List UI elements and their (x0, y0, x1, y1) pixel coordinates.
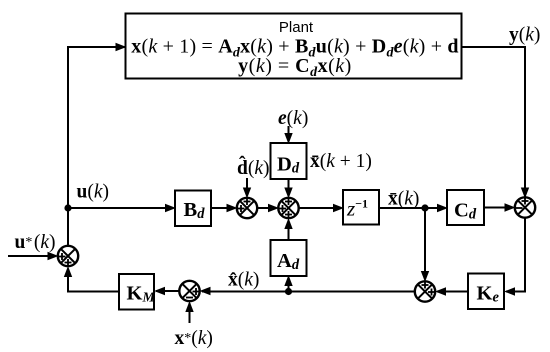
wire: x*(k) up into sum S5 (189, 303, 191, 323)
S4 plus top (422, 282, 429, 289)
arrowheads (48, 43, 530, 312)
wire: C_d to sum S3 (484, 207, 513, 209)
wire: sum S3 down and left into K_e (506, 218, 525, 292)
wire: e(k) arrow into D_d (288, 126, 290, 141)
arrow into sum S4 from right (435, 287, 446, 295)
summing junction S3 (515, 197, 535, 217)
S3 plus top (522, 198, 529, 205)
wire: A_d up into sum S2 (288, 221, 290, 241)
summing junction S5 (179, 281, 199, 301)
plus/minus signs inside summing junctions (59, 198, 529, 298)
wire: z^-1 to C_d (379, 207, 445, 209)
summing junction S2 (278, 198, 298, 218)
summing junction S6 (58, 246, 78, 266)
S6 plus bottom (65, 259, 72, 266)
arrow into sum S6 from left (48, 252, 59, 260)
wire: node after z^-1 down to sum S4 (424, 208, 426, 280)
arrow into sum S3 from left (505, 203, 516, 211)
arrow into sum S3 from top (521, 188, 529, 199)
svg-text:Plant: Plant (279, 19, 314, 36)
block z^-1 (343, 190, 379, 225)
svg-text:x̂(k): x̂(k) (228, 270, 259, 291)
block D_d (271, 143, 307, 179)
wire: B_d to sum S1 (211, 207, 235, 209)
wire: d-hat arrow into sum S1 (246, 178, 248, 196)
svg-text:e(k): e(k) (278, 108, 308, 129)
arrow into C_d (437, 204, 448, 212)
arrow into sum S5 from right (200, 287, 211, 295)
arrow into sum S6 from below (64, 266, 72, 277)
wire: node up into A_d (288, 278, 290, 292)
block K_e (468, 274, 504, 310)
svg-text:x̄(k): x̄(k) (388, 189, 419, 210)
S5 plus right (193, 288, 200, 295)
arrow into sum S2 from below (284, 218, 292, 229)
wire: u(k) from node to B_d (68, 207, 173, 209)
svg-text:x̄(k + 1): x̄(k + 1) (310, 151, 372, 172)
S3 minus left (516, 207, 523, 209)
arrow into B_d (165, 204, 176, 212)
wire: K_e to sum S4 (437, 291, 468, 293)
svg-text:y(k) = Cdx(k): y(k) = Cdx(k) (238, 55, 352, 80)
arrow into K_e (504, 287, 515, 295)
block B_d (175, 191, 211, 227)
S2 plus bottom (285, 211, 292, 218)
S2 plus left (279, 205, 286, 212)
wire: sum S1 to sum S2 (257, 207, 276, 209)
S1 plus top (244, 198, 251, 205)
arrow into plant (116, 43, 127, 51)
arrow into sum S1 from top (243, 188, 251, 199)
arrow into K_M (154, 287, 165, 295)
wire: K_M left and up into sum S6 (68, 269, 119, 292)
wire: sum S5 output into K_M (156, 290, 179, 292)
block K_M (119, 274, 154, 310)
wire: sum S2 to z^-1 (299, 207, 342, 209)
arrow into sum S5 from below (185, 301, 193, 312)
arrow into sum S2 from top (284, 188, 292, 199)
arrow into sum S4 from top (421, 271, 429, 282)
summing junction S1 (237, 198, 257, 218)
svg-text:y(k): y(k) (509, 25, 540, 46)
node dot u(k) (64, 204, 71, 211)
wire: sum S4 output left to sum S5 (202, 291, 415, 293)
summing junction S4 (415, 281, 435, 301)
arrow into sum S2 from left (268, 204, 279, 212)
S6 plus left (59, 253, 66, 260)
block C_d (447, 190, 484, 225)
block A_d (271, 240, 307, 276)
svg-text:x*(k): x*(k) (175, 328, 213, 349)
plant box (126, 14, 462, 79)
node dot bottom A_d branch (285, 288, 292, 295)
arrow into D_d from top (284, 133, 292, 144)
arrow into z^-1 (333, 204, 344, 212)
S4 plus right (428, 289, 435, 296)
svg-text:d̂(k): d̂(k) (237, 157, 270, 179)
wire: plant output to right column down to sum S3 (462, 47, 525, 199)
svg-text:u*(k): u*(k) (15, 232, 56, 253)
wire: D_d down to sum S2 (288, 179, 290, 196)
wire: u*(k) arrow into sum S6 (8, 255, 56, 257)
S5 minus bottom (186, 297, 193, 299)
wire: left vertical feedback line (68, 47, 125, 246)
arrow into A_d from below (284, 275, 292, 286)
S2 plus top (285, 198, 292, 205)
arrow into sum S1 from left (227, 204, 238, 212)
svg-text:u(k): u(k) (77, 182, 110, 203)
node dot after z^-1 (421, 204, 428, 211)
S1 plus left (238, 205, 245, 212)
